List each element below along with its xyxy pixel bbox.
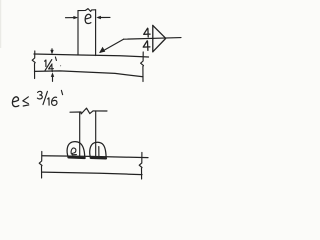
right weld bead inner tick [98,147,100,157]
weld symbol reference line [124,38,182,40]
dimension e left arrowhead [73,16,78,19]
note text digit 3 [37,91,42,99]
leader arrowhead at joint [99,47,105,53]
label 1/4 inch: digit 4 [49,64,54,72]
bottom figure: plate top break left tick [70,111,81,113]
note text fraction slash [43,91,47,104]
label e (gap dimension) [85,14,91,23]
bottom figure: plate top break right tick [93,110,107,112]
thickness dim bottom arrow shaft [52,74,54,81]
bottom figure: vertical plate right line [95,111,97,157]
note text e [12,97,18,107]
dimension e right arrowhead [96,16,101,19]
leader diagonal line [101,39,124,52]
top figure: vertical plate left line [77,11,79,55]
dimension e right arrow line [98,16,110,18]
note text digit 6 [52,97,57,105]
top figure: horizontal plate bottom line [35,71,144,77]
top figure: right break line [141,52,144,82]
scan edge artifact [0,0,1,48]
bottom figure: left break line [39,152,42,179]
right weld bead bottom chord [91,157,106,160]
dimension e left arrow line [66,17,77,19]
note text less-or-equal [23,97,29,104]
bottom figure: plate top break squiggle [81,108,93,114]
fillet symbol vertical leg [152,25,154,51]
stray pen dot [60,65,61,66]
top figure: plate top break squiggle [78,9,96,12]
label 1/4 inch: prime mark [55,57,56,60]
top figure: vertical plate right line [95,10,97,56]
bottom figure: horizontal plate bottom line [42,172,142,175]
bottom figure: right break line [139,153,142,180]
thickness dim top arrowhead [50,50,53,55]
left weld bead bottom chord [69,156,85,159]
left weld bead inner curl [71,148,76,155]
right weld bead outline [90,142,106,157]
top figure: horizontal plate top line [34,54,149,57]
thickness dim top arrow shaft [51,49,53,53]
bottom figure: horizontal plate top line [42,156,148,158]
fillet symbol top hypotenuse [153,25,166,38]
note text digit 1 [48,98,50,105]
bottom figure: vertical plate left line [79,112,81,157]
thickness dim bottom arrowhead [51,72,54,77]
label 1/4 inch: digit 1 [45,60,46,67]
fillet symbol bottom hypotenuse [153,39,166,52]
label 1/4 inch: fraction slash [45,60,52,71]
weld symbol size 4 (bottom) [143,41,150,51]
note text prime mark [61,90,62,94]
weld symbol size 4 (top) [144,28,150,37]
left weld bead outline [67,142,85,157]
top figure: left break line [32,51,35,79]
